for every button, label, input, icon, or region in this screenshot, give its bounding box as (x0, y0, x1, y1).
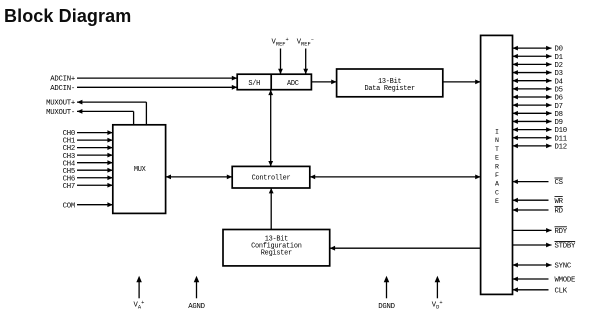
svg-text:A: A (495, 181, 499, 188)
wire VREF- into ADC (303, 49, 308, 75)
wire CH2 into MUX (77, 145, 113, 150)
svg-text:VREF–: VREF– (297, 37, 314, 47)
wire CH6 into MUX (77, 175, 113, 180)
svg-text:Data Register: Data Register (364, 85, 415, 93)
wire D0 (bidirectional) (513, 46, 552, 51)
svg-text:D6: D6 (555, 95, 563, 103)
power VD+ arrow (435, 276, 441, 299)
wire D1 (bidirectional) (513, 54, 552, 59)
svg-text:F: F (495, 172, 499, 179)
svg-text:ADCIN-: ADCIN- (50, 85, 75, 93)
svg-text:D11: D11 (555, 135, 568, 143)
svg-text:COM: COM (63, 202, 75, 210)
svg-text:MUXOUT-: MUXOUT- (46, 109, 75, 117)
svg-text:D9: D9 (555, 119, 563, 127)
wire D6 (bidirectional) (513, 95, 552, 100)
svg-text:C: C (495, 189, 499, 196)
svg-text:RD: RD (555, 208, 564, 216)
svg-text:AGND: AGND (188, 303, 205, 311)
wire WR into INTERFACE (513, 198, 549, 203)
wire CLK into INTERFACE (513, 287, 549, 292)
wire D4 (bidirectional) (513, 78, 552, 83)
wire D7 (bidirectional) (513, 103, 552, 108)
svg-text:ADCIN+: ADCIN+ (50, 76, 75, 84)
ground AGND arrow (194, 276, 200, 299)
wire CH3 into MUX (77, 153, 113, 158)
wire Configuration Register to Controller (269, 188, 274, 230)
svg-text:VD+: VD+ (432, 300, 443, 310)
wire ADCIN- into S/H (77, 85, 237, 90)
svg-text:D1: D1 (555, 54, 564, 62)
wire ADCIN+ into S/H (77, 76, 237, 81)
svg-text:VA+: VA+ (134, 300, 145, 310)
svg-text:VREF+: VREF+ (272, 37, 289, 47)
svg-text:T: T (495, 146, 499, 153)
wire D5 (bidirectional) (513, 86, 552, 91)
ground DGND arrow (384, 276, 390, 299)
wire MUXOUT+ from MUX top (77, 100, 146, 125)
label WR (active low) (555, 197, 564, 206)
label 13-Bit Data Register (364, 78, 415, 93)
svg-text:E: E (495, 198, 499, 205)
svg-text:D10: D10 (555, 127, 567, 135)
power VA+ arrow (136, 276, 142, 299)
wire RD into INTERFACE (513, 208, 549, 213)
label STDBY (active low) (555, 241, 577, 250)
svg-text:D0: D0 (555, 46, 563, 54)
wire MUX to Controller (bidirectional) (166, 175, 233, 180)
wire MUXOUT- from MUX top (77, 109, 134, 125)
wire SYNC (bidirectional) (513, 263, 552, 268)
wire D3 (bidirectional) (513, 70, 552, 75)
13-Bit Data Register block (337, 69, 443, 97)
svg-text:MUX: MUX (134, 166, 147, 174)
wire COM into MUX (77, 202, 113, 207)
label 13-Bit Configuration Register (251, 236, 302, 258)
svg-text:CH7: CH7 (63, 183, 75, 191)
wire ADC to Data Register (311, 80, 336, 85)
wire D10 (bidirectional) (513, 127, 552, 132)
svg-text:I: I (495, 129, 499, 136)
Controller block (232, 166, 310, 188)
label RDY (active low) (555, 227, 568, 236)
wire D2 (bidirectional) (513, 62, 552, 67)
label INTERFACE (vertical) (495, 129, 499, 206)
svg-text:DGND: DGND (378, 303, 395, 311)
MUX block (113, 125, 166, 214)
svg-text:Controller: Controller (252, 174, 291, 182)
svg-text:STDBY: STDBY (555, 243, 577, 251)
wire CH5 into MUX (77, 168, 113, 173)
label CS (active low) (555, 178, 564, 187)
svg-text:D12: D12 (555, 144, 567, 152)
wire ADC to Controller (bidirectional) (268, 90, 273, 167)
svg-text:D7: D7 (555, 103, 563, 111)
svg-text:CS: CS (555, 179, 564, 187)
wire Data Register to INTERFACE (443, 80, 481, 85)
wire CS into INTERFACE (513, 179, 549, 184)
svg-text:D5: D5 (555, 86, 563, 94)
svg-text:E: E (495, 155, 499, 162)
svg-text:D8: D8 (555, 111, 563, 119)
svg-text:RDY: RDY (555, 228, 568, 236)
svg-text:ADC: ADC (287, 80, 299, 88)
svg-text:MUXOUT+: MUXOUT+ (46, 100, 75, 108)
wire Controller to INTERFACE (bidirectional) (310, 175, 481, 180)
label RD (active low) (555, 206, 564, 215)
wire WMODE into INTERFACE (513, 277, 549, 282)
INTERFACE block (481, 35, 513, 294)
svg-text:D3: D3 (555, 70, 563, 78)
wire D9 (bidirectional) (513, 119, 552, 124)
svg-text:WR: WR (555, 198, 564, 206)
svg-text:D4: D4 (555, 78, 564, 86)
svg-text:CLK: CLK (555, 287, 568, 295)
wire D8 (bidirectional) (513, 111, 552, 116)
13-Bit Configuration Register block (223, 230, 330, 266)
wire STDBY out of INTERFACE (513, 243, 552, 248)
svg-text:WMODE: WMODE (555, 277, 576, 285)
wire D12 (bidirectional) (513, 144, 552, 149)
wire INTERFACE to Configuration Register (330, 246, 481, 251)
wire D11 (bidirectional) (513, 135, 552, 140)
wire CH0 into MUX (77, 130, 113, 135)
svg-text:D2: D2 (555, 62, 563, 70)
wire RDY out of INTERFACE (513, 228, 552, 233)
svg-text:S/H: S/H (248, 80, 260, 88)
svg-text:N: N (495, 137, 499, 144)
wire CH7 into MUX (77, 183, 113, 188)
svg-text:R: R (495, 163, 499, 170)
svg-text:SYNC: SYNC (555, 263, 572, 271)
title Block Diagram (4, 6, 131, 27)
wire CH4 into MUX (77, 160, 113, 165)
wire CH1 into MUX (77, 138, 113, 143)
op-amp style S/H + ADC block outline U1 (237, 74, 311, 90)
wire VREF+ into ADC (278, 49, 283, 75)
svg-text:Register: Register (261, 249, 292, 257)
